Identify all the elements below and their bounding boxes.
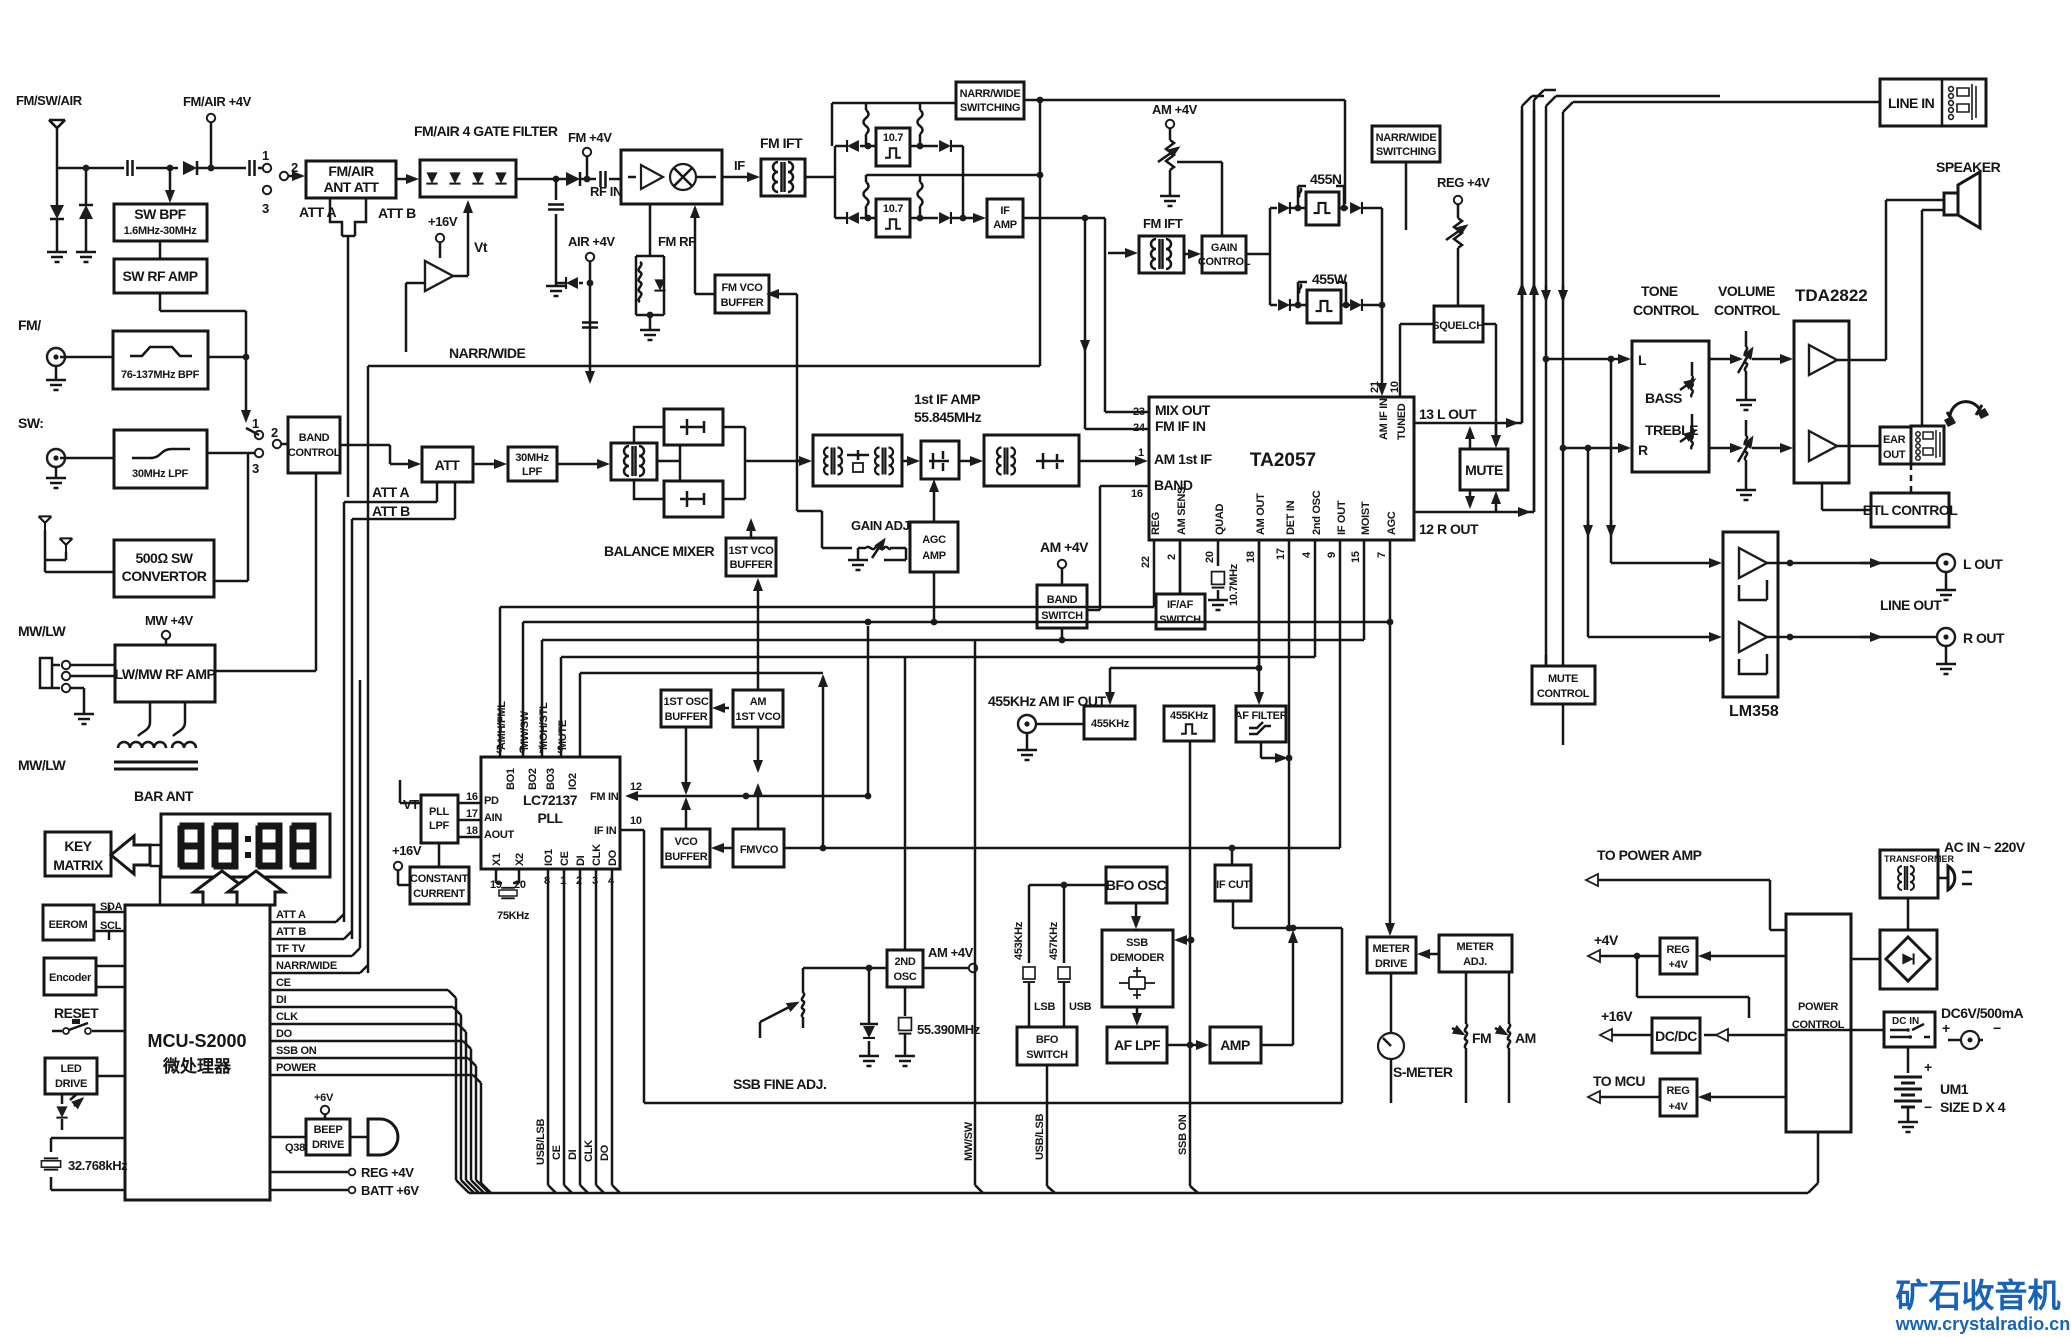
- svg-text:ATT: ATT: [435, 457, 461, 473]
- svg-text:DC6V/500mA: DC6V/500mA: [1941, 1005, 2024, 1021]
- svg-text:22: 22: [1140, 556, 1152, 568]
- svg-text:MW/LW: MW/LW: [18, 757, 67, 773]
- svg-text:BEEP: BEEP: [314, 1124, 343, 1136]
- svg-text:3: 3: [262, 201, 269, 216]
- svg-text:KEY: KEY: [64, 838, 92, 854]
- svg-text:AMH/FML: AMH/FML: [496, 701, 508, 750]
- svg-text:FM/AIR +4V: FM/AIR +4V: [183, 94, 252, 109]
- svg-text:CURRENT: CURRENT: [413, 888, 465, 900]
- svg-text:LPF: LPF: [522, 466, 542, 478]
- svg-text:MCU-S2000: MCU-S2000: [147, 1031, 246, 1051]
- svg-text:矿石收音机: 矿石收音机: [1896, 1277, 2061, 1314]
- svg-text:DRIVE: DRIVE: [55, 1078, 87, 1090]
- svg-text:AMP: AMP: [993, 219, 1017, 231]
- svg-text:PD: PD: [484, 795, 499, 807]
- svg-text:SSB FINE ADJ.: SSB FINE ADJ.: [733, 1076, 826, 1092]
- svg-text:CONVERTOR: CONVERTOR: [122, 568, 207, 584]
- svg-text:LM358: LM358: [1729, 703, 1779, 720]
- svg-text:ATT A: ATT A: [372, 484, 410, 500]
- svg-text:ATT A: ATT A: [276, 909, 306, 921]
- svg-text:DO: DO: [276, 1028, 293, 1040]
- svg-text:AM 1st IF: AM 1st IF: [1154, 451, 1213, 467]
- svg-text:455N: 455N: [1310, 171, 1342, 187]
- svg-text:FM/AIR 4 GATE FILTER: FM/AIR 4 GATE FILTER: [414, 123, 558, 139]
- svg-text:BUFFER: BUFFER: [730, 559, 773, 571]
- svg-text:MIX OUT: MIX OUT: [1155, 402, 1211, 418]
- svg-text:POWER: POWER: [276, 1062, 316, 1074]
- svg-text:LED: LED: [60, 1063, 81, 1075]
- svg-text:FM +4V: FM +4V: [568, 130, 612, 145]
- svg-text:REG +4V: REG +4V: [361, 1165, 414, 1180]
- svg-text:SSB ON: SSB ON: [276, 1045, 317, 1057]
- svg-text:SSB: SSB: [1126, 937, 1148, 949]
- svg-text:DI: DI: [575, 855, 587, 866]
- svg-text:RF IN: RF IN: [590, 184, 622, 199]
- svg-text:AGC: AGC: [1386, 511, 1398, 535]
- svg-text:IO2: IO2: [567, 773, 579, 790]
- svg-text:AM IF IN: AM IF IN: [1378, 398, 1390, 440]
- svg-text:DI: DI: [276, 994, 287, 1006]
- svg-text:18: 18: [1245, 551, 1257, 563]
- svg-text:2: 2: [271, 425, 278, 440]
- svg-text:BO1: BO1: [505, 768, 517, 790]
- svg-text:12: 12: [630, 781, 642, 793]
- svg-text:MW/SW: MW/SW: [963, 1121, 975, 1161]
- svg-text:76-137MHz BPF: 76-137MHz BPF: [121, 369, 200, 381]
- svg-text:OUT: OUT: [1883, 449, 1906, 461]
- svg-text:DI: DI: [567, 1149, 579, 1160]
- svg-text:DRIVE: DRIVE: [1375, 958, 1407, 970]
- svg-text:DEMODER: DEMODER: [1110, 952, 1164, 964]
- svg-text:13 L OUT: 13 L OUT: [1419, 406, 1477, 422]
- svg-text:24: 24: [1133, 422, 1146, 434]
- svg-text:2nd OSC: 2nd OSC: [1311, 490, 1323, 535]
- svg-text:TRANSFORMER: TRANSFORMER: [1884, 854, 1954, 864]
- svg-text:AM +4V: AM +4V: [928, 945, 974, 960]
- svg-text:GAIN ADJ.: GAIN ADJ.: [851, 518, 913, 533]
- svg-text:USB: USB: [1069, 1001, 1092, 1013]
- svg-text:+4V: +4V: [1669, 959, 1689, 971]
- svg-text:R: R: [1638, 442, 1648, 458]
- svg-text:UM1: UM1: [1940, 1081, 1969, 1097]
- svg-text:CLK: CLK: [276, 1011, 298, 1023]
- svg-text:FM RF: FM RF: [658, 234, 696, 249]
- svg-text:SWITCHING: SWITCHING: [960, 102, 1020, 114]
- svg-text:VCO: VCO: [675, 836, 699, 848]
- svg-text:+16V: +16V: [1601, 1008, 1633, 1024]
- svg-text:7: 7: [1376, 552, 1388, 558]
- svg-text:AM +4V: AM +4V: [1040, 539, 1089, 555]
- svg-text:457KHz: 457KHz: [1048, 921, 1060, 960]
- svg-text:FM IN: FM IN: [590, 791, 619, 803]
- svg-text:IF/AF: IF/AF: [1167, 599, 1194, 611]
- svg-text:MATRIX: MATRIX: [53, 857, 104, 873]
- svg-text:1: 1: [1138, 447, 1144, 459]
- svg-text:SWITCH: SWITCH: [1026, 1049, 1068, 1061]
- svg-text:Vt: Vt: [474, 239, 488, 255]
- svg-text:16: 16: [1131, 488, 1143, 500]
- svg-text:FM IFT: FM IFT: [1143, 216, 1183, 231]
- svg-text:BAND: BAND: [1047, 594, 1078, 606]
- svg-text:FM: FM: [1472, 1030, 1491, 1046]
- svg-text:NARR/WIDE: NARR/WIDE: [1376, 132, 1437, 144]
- svg-text:CE: CE: [551, 1145, 563, 1160]
- svg-text:LINE IN: LINE IN: [1888, 95, 1935, 111]
- svg-text:CONTROL: CONTROL: [1537, 688, 1590, 700]
- svg-text:L OUT: L OUT: [1963, 556, 2003, 572]
- svg-text:LC72137: LC72137: [523, 792, 578, 808]
- svg-text:SW BPF: SW BPF: [134, 206, 186, 222]
- svg-text:FM/SW/AIR: FM/SW/AIR: [16, 93, 83, 108]
- svg-text:REG +4V: REG +4V: [1437, 175, 1490, 190]
- svg-text:ATT A: ATT A: [299, 204, 337, 220]
- svg-text:LW/MW RF AMP: LW/MW RF AMP: [115, 666, 216, 682]
- svg-text:+6V: +6V: [314, 1092, 334, 1104]
- svg-text:BASS: BASS: [1645, 390, 1682, 406]
- svg-text:IF OUT: IF OUT: [1336, 500, 1348, 535]
- svg-text:2: 2: [291, 160, 298, 175]
- svg-text:1st IF AMP: 1st IF AMP: [914, 391, 980, 407]
- svg-text:IF CUT: IF CUT: [1216, 879, 1250, 891]
- svg-text:1ST VCO: 1ST VCO: [736, 711, 782, 723]
- svg-text:−: −: [1924, 1099, 1932, 1115]
- svg-text:AMP: AMP: [1220, 1037, 1250, 1053]
- svg-text:AF LPF: AF LPF: [1114, 1037, 1161, 1053]
- svg-text:PLL: PLL: [538, 810, 564, 826]
- svg-text:ADJ.: ADJ.: [1463, 956, 1487, 968]
- svg-text:DC IN: DC IN: [1892, 1016, 1919, 1027]
- svg-text:REG: REG: [1667, 944, 1690, 956]
- svg-text:10.7MHz: 10.7MHz: [1228, 563, 1240, 606]
- svg-text:TA2057: TA2057: [1250, 450, 1316, 471]
- svg-text:TO MCU: TO MCU: [1593, 1073, 1645, 1089]
- svg-text:FM/: FM/: [18, 317, 41, 333]
- svg-text:SWITCH: SWITCH: [1041, 610, 1083, 622]
- svg-text:LINE OUT: LINE OUT: [1880, 597, 1942, 613]
- svg-text:ANT ATT: ANT ATT: [324, 179, 380, 195]
- svg-text:RESET: RESET: [54, 1005, 99, 1021]
- svg-text:SWITCHING: SWITCHING: [1376, 146, 1436, 158]
- svg-text:12 R OUT: 12 R OUT: [1419, 521, 1479, 537]
- svg-text:+: +: [1942, 1020, 1950, 1036]
- svg-text:CONSTANT: CONSTANT: [410, 873, 468, 885]
- svg-text:X2: X2: [514, 853, 526, 866]
- svg-text:453KHz: 453KHz: [1013, 921, 1025, 960]
- svg-text:DO: DO: [607, 849, 619, 866]
- svg-text:PLL: PLL: [429, 806, 449, 818]
- svg-text:−: −: [1993, 1020, 2001, 1036]
- svg-text:Q38: Q38: [285, 1142, 305, 1154]
- svg-text:MUTE: MUTE: [1465, 462, 1503, 478]
- svg-text:AM OUT: AM OUT: [1255, 493, 1267, 535]
- svg-text:21: 21: [1369, 381, 1381, 393]
- svg-text:AOUT: AOUT: [484, 829, 515, 841]
- svg-text:NARR/WIDE: NARR/WIDE: [276, 960, 337, 972]
- svg-text:1ST VCO: 1ST VCO: [729, 545, 775, 557]
- svg-text:www.crystalradio.cn: www.crystalradio.cn: [1895, 1314, 2070, 1334]
- svg-text:17: 17: [1275, 548, 1287, 560]
- svg-text:BO3: BO3: [545, 768, 557, 790]
- svg-text:IF IN: IF IN: [594, 825, 617, 837]
- svg-text:75KHz: 75KHz: [497, 910, 530, 922]
- svg-text:TO POWER AMP: TO POWER AMP: [1597, 847, 1702, 863]
- svg-text:500Ω SW: 500Ω SW: [135, 550, 193, 566]
- svg-text:BO2: BO2: [527, 768, 539, 790]
- svg-text:16: 16: [466, 791, 478, 803]
- svg-text:+: +: [1924, 1059, 1932, 1075]
- svg-text:MUTE: MUTE: [1548, 673, 1578, 685]
- svg-text:LSB: LSB: [1034, 1001, 1055, 1013]
- svg-text:POWER: POWER: [1798, 1001, 1838, 1013]
- svg-text:BUFFER: BUFFER: [665, 851, 708, 863]
- svg-text:X1: X1: [491, 853, 503, 866]
- svg-text:30MHz: 30MHz: [515, 452, 549, 464]
- svg-text:EAR: EAR: [1883, 434, 1906, 446]
- svg-text:TDA2822: TDA2822: [1795, 286, 1868, 305]
- svg-text:EEROM: EEROM: [49, 919, 88, 931]
- svg-text:CONTROL: CONTROL: [1198, 256, 1251, 268]
- svg-text:AM: AM: [750, 696, 767, 708]
- svg-text:AC IN ~ 220V: AC IN ~ 220V: [1944, 839, 2026, 855]
- svg-text:FM IF IN: FM IF IN: [1155, 418, 1206, 434]
- svg-text:QUAD: QUAD: [1214, 503, 1226, 535]
- svg-text:FMVCO: FMVCO: [740, 844, 779, 856]
- svg-text:AMP: AMP: [922, 550, 946, 562]
- svg-text:ATT B: ATT B: [276, 926, 306, 938]
- svg-text:L: L: [1638, 352, 1647, 368]
- svg-text:AM SENS: AM SENS: [1176, 487, 1188, 535]
- svg-text:NARR/WIDE: NARR/WIDE: [960, 88, 1021, 100]
- svg-text:CE: CE: [276, 977, 291, 989]
- svg-text:2: 2: [1166, 554, 1178, 560]
- svg-text:METER: METER: [1372, 943, 1409, 955]
- svg-text:R OUT: R OUT: [1963, 630, 2005, 646]
- svg-text:55.390MHz: 55.390MHz: [917, 1022, 981, 1037]
- svg-text:10: 10: [630, 815, 642, 827]
- svg-text:AM +4V: AM +4V: [1152, 102, 1198, 117]
- svg-text:CONTROL: CONTROL: [288, 447, 341, 459]
- svg-text:455KHz: 455KHz: [1170, 710, 1209, 722]
- svg-text:3: 3: [252, 461, 259, 476]
- svg-text:SW:: SW:: [18, 415, 43, 431]
- svg-text:CLK: CLK: [583, 1140, 595, 1162]
- svg-text:23: 23: [1133, 406, 1145, 418]
- svg-text:20: 20: [1204, 551, 1216, 563]
- svg-text:BUFFER: BUFFER: [665, 711, 708, 723]
- svg-text:15: 15: [1350, 551, 1362, 563]
- svg-text:IF: IF: [1000, 205, 1010, 217]
- svg-text:AIR +4V: AIR +4V: [568, 234, 615, 249]
- svg-text:FM IFT: FM IFT: [760, 135, 803, 151]
- svg-text:AM: AM: [1515, 1030, 1536, 1046]
- svg-text:32.768kHz: 32.768kHz: [68, 1158, 128, 1173]
- svg-text:55.845MHz: 55.845MHz: [914, 409, 982, 425]
- svg-text:BATT +6V: BATT +6V: [361, 1183, 419, 1198]
- svg-text:BFO OSC: BFO OSC: [1106, 877, 1167, 893]
- svg-text:VOLUME: VOLUME: [1718, 283, 1775, 299]
- svg-text:METER: METER: [1456, 941, 1493, 953]
- svg-text:1: 1: [262, 148, 269, 163]
- svg-text:MW +4V: MW +4V: [145, 613, 194, 628]
- svg-text:+16V: +16V: [428, 214, 458, 229]
- svg-text:9: 9: [1326, 552, 1338, 558]
- svg-text:Encoder: Encoder: [49, 972, 92, 984]
- svg-text:TF TV: TF TV: [276, 943, 306, 955]
- svg-text:IF: IF: [734, 158, 745, 173]
- svg-text:FM VCO: FM VCO: [722, 282, 764, 294]
- svg-text:DRIVE: DRIVE: [312, 1139, 344, 1151]
- svg-text:BTL CONTROL: BTL CONTROL: [1863, 502, 1959, 518]
- svg-text:CONTROL: CONTROL: [1633, 302, 1700, 318]
- svg-text:2ND: 2ND: [894, 956, 915, 968]
- svg-text:TUNED: TUNED: [1396, 403, 1408, 440]
- svg-text:USB/LSB: USB/LSB: [1034, 1113, 1046, 1160]
- svg-text:+4V: +4V: [1669, 1101, 1689, 1113]
- svg-text:1.6MHz-30MHz: 1.6MHz-30MHz: [124, 225, 198, 237]
- svg-text:ATT B: ATT B: [378, 205, 416, 221]
- svg-text:AGC: AGC: [922, 534, 946, 546]
- svg-text:CLK: CLK: [591, 844, 603, 866]
- svg-text:BUFFER: BUFFER: [721, 297, 764, 309]
- svg-text:17: 17: [466, 808, 478, 820]
- svg-text:GAIN: GAIN: [1211, 242, 1238, 254]
- svg-text:18: 18: [466, 825, 478, 837]
- svg-text:30MHz LPF: 30MHz LPF: [132, 468, 189, 480]
- svg-text:SPEAKER: SPEAKER: [1936, 159, 2001, 175]
- svg-text:FM/AIR: FM/AIR: [328, 163, 374, 179]
- svg-text:DO: DO: [599, 1144, 611, 1161]
- svg-text:10.7: 10.7: [883, 132, 903, 144]
- svg-text:455W: 455W: [1312, 271, 1348, 287]
- svg-text:1ST OSC: 1ST OSC: [664, 696, 709, 708]
- svg-text:SW RF AMP: SW RF AMP: [122, 268, 197, 284]
- svg-text:USB/LSB: USB/LSB: [535, 1118, 547, 1165]
- svg-text:DET IN: DET IN: [1285, 500, 1297, 535]
- svg-text:CONTROL: CONTROL: [1714, 302, 1781, 318]
- svg-text:AF FILTER: AF FILTER: [1235, 710, 1288, 722]
- svg-text:455KHz: 455KHz: [1091, 718, 1130, 730]
- svg-text:REG: REG: [1667, 1085, 1690, 1097]
- svg-text:IO1: IO1: [543, 849, 555, 866]
- svg-text:微处理器: 微处理器: [162, 1056, 232, 1076]
- svg-text:S-METER: S-METER: [1393, 1064, 1453, 1080]
- svg-text:BFO: BFO: [1036, 1034, 1059, 1046]
- svg-text:VT: VT: [403, 797, 419, 812]
- svg-text:REG: REG: [1150, 512, 1162, 535]
- svg-text:OSC: OSC: [894, 971, 917, 983]
- svg-text:1: 1: [252, 416, 259, 431]
- svg-text:DC/DC: DC/DC: [1655, 1028, 1697, 1044]
- svg-text:BALANCE MIXER: BALANCE MIXER: [604, 543, 715, 559]
- svg-text:SWITCH: SWITCH: [1159, 614, 1201, 626]
- svg-text:SSB ON: SSB ON: [1177, 1114, 1189, 1155]
- svg-text:BAND: BAND: [299, 432, 330, 444]
- svg-text:MW/LW: MW/LW: [18, 623, 67, 639]
- svg-text:BAR ANT: BAR ANT: [134, 788, 194, 804]
- svg-text:SQUELCH: SQUELCH: [1432, 320, 1484, 332]
- svg-text:+4V: +4V: [1594, 932, 1619, 948]
- svg-text:AIN: AIN: [484, 812, 502, 824]
- svg-text:MOH/STL: MOH/STL: [538, 702, 550, 750]
- svg-text:SIZE D X 4: SIZE D X 4: [1940, 1099, 2006, 1115]
- svg-text:+16V: +16V: [392, 843, 422, 858]
- svg-text:NARR/WIDE: NARR/WIDE: [449, 345, 526, 361]
- svg-text:MOIST: MOIST: [1360, 501, 1372, 535]
- svg-text:LPF: LPF: [429, 820, 449, 832]
- svg-text:ATT B: ATT B: [372, 503, 410, 519]
- svg-text:TONE: TONE: [1641, 283, 1678, 299]
- svg-text:CE: CE: [559, 851, 571, 866]
- svg-text:10.7: 10.7: [883, 203, 903, 215]
